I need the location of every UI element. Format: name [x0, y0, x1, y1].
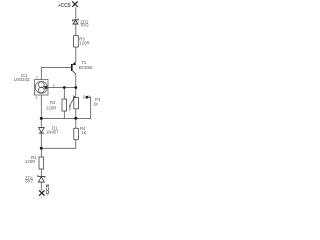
svg-text:-CCS: -CCS — [45, 183, 51, 196]
svg-text:BC556: BC556 — [79, 65, 93, 70]
svg-text:120R: 120R — [79, 40, 89, 45]
svg-text:2: 2 — [53, 84, 55, 88]
svg-text:1K: 1K — [81, 130, 86, 135]
svg-text:1N457: 1N457 — [46, 129, 59, 134]
svg-text:8V2: 8V2 — [25, 179, 33, 184]
svg-text:1K: 1K — [93, 102, 98, 107]
svg-text:R2: R2 — [50, 100, 56, 105]
svg-text:+CCS: +CCS — [58, 3, 71, 9]
svg-text:2: 2 — [88, 95, 90, 99]
svg-text:8V2: 8V2 — [81, 23, 89, 28]
svg-text:1: 1 — [36, 75, 38, 79]
svg-text:120R: 120R — [25, 159, 35, 164]
svg-text:S: S — [83, 95, 86, 100]
svg-text:3: 3 — [35, 96, 37, 100]
svg-text:120R: 120R — [46, 106, 56, 111]
svg-text:LM334Z: LM334Z — [14, 77, 30, 82]
